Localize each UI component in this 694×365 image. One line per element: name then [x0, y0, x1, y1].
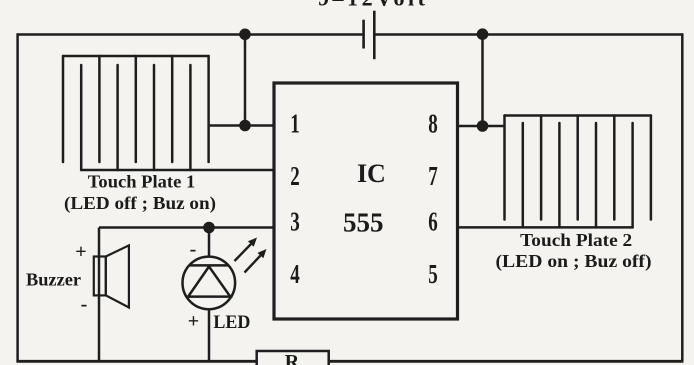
junction dot at pin1 wire: [239, 120, 251, 132]
op IC U1 555 box: [274, 83, 458, 319]
svg-text:-: -: [81, 294, 88, 316]
LED D1 circle: [183, 257, 236, 310]
wire: left border: [16, 33, 19, 361]
svg-text:IC: IC: [357, 159, 386, 188]
buzzer LS1 magnet body: [94, 257, 106, 296]
junction dot top-left: [239, 29, 251, 41]
LED emission arrow 1: [235, 238, 258, 262]
svg-text:R: R: [285, 351, 300, 365]
svg-text:9–12Volt: 9–12Volt: [318, 0, 426, 11]
battery BT1 short plate (negative): [362, 20, 365, 49]
LED D1 triangle: [188, 267, 230, 297]
resistor R box: [257, 351, 329, 365]
LED emission arrow 2: [245, 249, 267, 273]
svg-text:Buzzer: Buzzer: [26, 270, 81, 290]
wire: pin8 from IC to touch plate 2: [458, 125, 506, 128]
touch plate 1 comb electrode: [63, 56, 274, 170]
svg-text:2: 2: [290, 161, 300, 191]
svg-text:7: 7: [428, 161, 438, 191]
wire: left battery branch vertical: [244, 35, 247, 126]
wire: LED bottom lead: [208, 309, 211, 361]
LED D1 cathode bar: [189, 264, 228, 267]
wire: right border: [681, 33, 684, 361]
wire: top border left segment (to battery): [17, 33, 364, 36]
svg-text:1: 1: [290, 109, 300, 139]
touch plate 2 comb electrode: [458, 116, 651, 228]
buzzer LS1 cone: [106, 245, 129, 307]
junction dot top-right: [477, 28, 489, 40]
svg-text:Touch Plate 1: Touch Plate 1: [88, 172, 196, 192]
svg-text:8: 8: [428, 109, 438, 139]
svg-text:+: +: [75, 241, 86, 263]
svg-text:(LED on ; Buz off): (LED on ; Buz off): [496, 251, 652, 272]
svg-text:LED: LED: [213, 312, 250, 333]
junction dot at LED branch: [203, 222, 215, 234]
battery BT1 long plate (positive): [373, 11, 376, 60]
svg-text:6: 6: [428, 207, 438, 237]
svg-text:555: 555: [343, 208, 384, 238]
wire: pin1 from touch plate 1 to IC: [209, 124, 274, 127]
svg-text:5: 5: [428, 259, 438, 289]
svg-text:+: +: [188, 311, 199, 333]
junction dot at pin8 wire: [477, 120, 489, 132]
wire: right battery branch vertical: [481, 35, 484, 127]
svg-text:4: 4: [290, 259, 300, 289]
wire: top border right segment (from battery): [374, 33, 683, 36]
wire: buzzer lead vertical: [98, 228, 101, 362]
svg-text:-: -: [190, 239, 197, 261]
svg-text:Touch Plate 2: Touch Plate 2: [520, 230, 632, 250]
wire: bottom border: [16, 360, 683, 363]
wire: LED anode lead from junction: [208, 228, 211, 258]
svg-text:3: 3: [290, 207, 300, 237]
svg-text:(LED off ; Buz on): (LED off ; Buz on): [64, 193, 216, 214]
wire: pin3 to buzzer and LED: [99, 226, 274, 229]
